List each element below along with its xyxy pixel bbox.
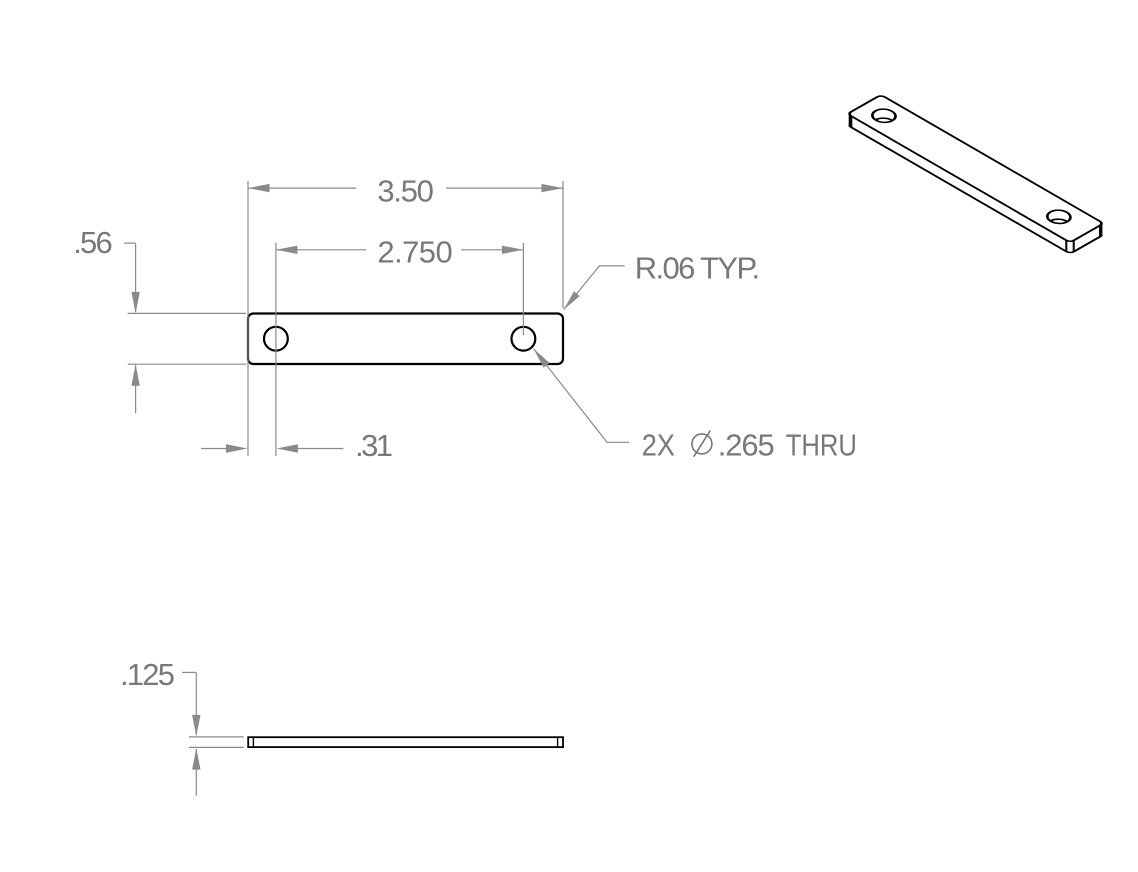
svg-text:3.50: 3.50 bbox=[377, 173, 434, 208]
svg-text:.31: .31 bbox=[355, 428, 393, 463]
svg-text:R.06 TYP.: R.06 TYP. bbox=[635, 251, 760, 286]
svg-text:2.750: 2.750 bbox=[377, 235, 452, 270]
svg-text:.56: .56 bbox=[73, 225, 113, 260]
svg-text:2X: 2X bbox=[642, 427, 675, 462]
svg-text:.265: .265 bbox=[718, 427, 775, 462]
svg-text:THRU: THRU bbox=[786, 427, 857, 462]
svg-text:.125: .125 bbox=[120, 657, 175, 692]
